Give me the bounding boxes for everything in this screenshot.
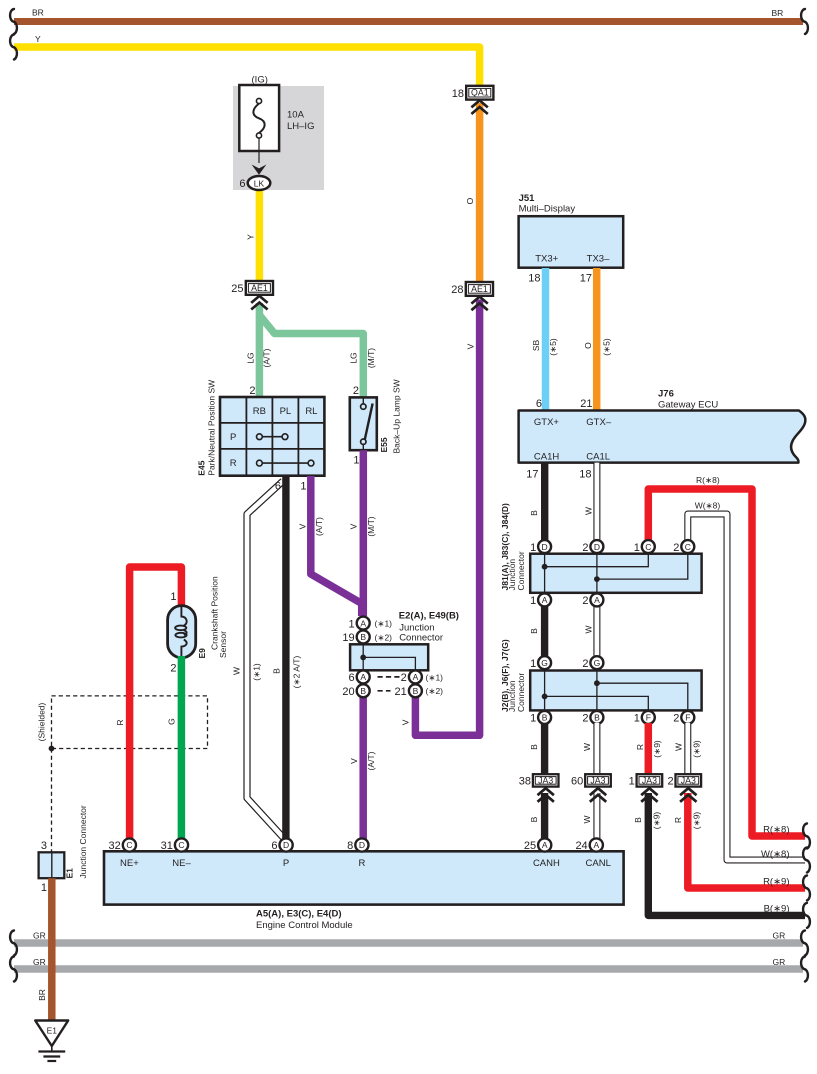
wire LG branch to E55 pin2 [259,315,363,398]
dashes row A [378,676,400,678]
chevron under AE1 28 [471,297,487,311]
svg-text:(IG): (IG) [252,75,268,86]
connector box 25 AE1 [231,281,273,295]
svg-text:V: V [466,343,476,349]
svg-text:1: 1 [634,542,640,554]
svg-text:W: W [583,625,593,633]
svg-text:17: 17 [580,273,592,285]
wire GR 2 [14,965,803,973]
svg-text:(∗1): (∗1) [251,663,261,681]
curl W(*8) right [803,848,810,873]
svg-text:25: 25 [524,840,536,852]
wire B 38 JA3 to CANH [541,793,548,840]
connector box 2 JA3 [667,774,701,787]
wire LG from AE1 to E45 pin2 [256,303,264,397]
svg-text:A: A [593,840,599,850]
wire V (M/T) E55 pin1 to E2 junction [360,450,368,616]
svg-text:(∗5): (∗5) [548,338,558,356]
ground E1 [35,1021,68,1062]
svg-text:LG: LG [349,352,359,363]
svg-text:(A/T): (A/T) [262,348,272,367]
svg-text:6: 6 [275,481,281,493]
wire BR top [14,18,803,25]
svg-text:8: 8 [347,840,353,852]
svg-text:(∗9): (∗9) [691,740,701,758]
svg-text:E2(A), E49(B): E2(A), E49(B) [399,611,459,622]
svg-text:D: D [594,542,600,552]
svg-text:W: W [582,815,592,823]
svg-text:P: P [283,858,289,869]
svg-text:(∗2): (∗2) [375,632,393,642]
pin 2 D [582,540,603,554]
svg-text:1: 1 [530,542,536,554]
svg-text:1: 1 [629,775,635,787]
svg-text:3: 3 [41,840,47,852]
pin 2 G [582,656,603,670]
ECU J76 Gateway ECU [519,389,806,463]
wire V E2 junction to ECM R [359,697,367,841]
svg-text:BR: BR [37,989,47,1001]
curl GR2 right [801,957,808,982]
svg-text:JA3: JA3 [642,775,657,785]
svg-text:(M/T): (M/T) [366,348,376,368]
svg-text:(∗1): (∗1) [375,619,393,629]
svg-text:P: P [230,432,236,443]
svg-text:Back–Up Lamp SW: Back–Up Lamp SW [391,379,401,453]
svg-text:A: A [360,672,366,682]
pin 32 C [109,838,136,852]
svg-text:R(∗9): R(∗9) [763,877,789,888]
wire B between junction boxes [541,552,548,663]
wire R box2 to 1 JA3 [645,723,653,775]
wire W box2 to 2 JA3 [684,723,691,775]
svg-text:(∗9): (∗9) [652,740,662,758]
wire V (A/T) E45 pin1 to E2 junction [311,476,362,616]
svg-text:G: G [166,718,176,725]
svg-text:2: 2 [249,385,255,397]
wire O QA1 to AE1 [476,103,484,282]
connector 6 LK [239,176,270,190]
svg-text:F: F [646,713,651,723]
curl B(*9) right [803,903,810,928]
curl GR1 right [801,931,808,956]
svg-text:W: W [231,667,241,675]
pin 1 D [530,540,551,554]
pin 19 B E2 [342,630,392,644]
svg-text:(∗5): (∗5) [602,338,612,356]
svg-text:PL: PL [280,406,292,417]
node shield drain [49,746,55,752]
svg-text:6: 6 [536,398,542,410]
svg-text:Y: Y [246,234,256,240]
wire W box2 to 60 JA3 [593,723,600,775]
wire V AE1 down to E2 junction pin 21 [415,300,479,736]
svg-text:2: 2 [582,713,588,725]
svg-text:Multi–Display: Multi–Display [519,204,576,215]
svg-text:2: 2 [582,542,588,554]
svg-text:LK: LK [254,178,265,188]
svg-text:B: B [594,713,600,723]
svg-text:2: 2 [170,663,176,675]
svg-text:R: R [358,858,365,869]
wire B CA1H down [541,463,548,541]
svg-text:AE1: AE1 [251,283,268,293]
svg-text:1: 1 [634,713,640,725]
connector box 60 JA3 [571,774,611,787]
svg-text:C: C [685,542,691,552]
svg-text:B: B [413,686,419,696]
svg-text:(∗9): (∗9) [651,812,661,830]
chevron arrow under AE1 25 [251,296,267,310]
svg-text:B: B [542,713,548,723]
pin 31 C [161,838,188,852]
svg-text:(∗2 A/T): (∗2 A/T) [291,656,301,689]
pin 6 D [271,838,292,852]
svg-text:W(∗8): W(∗8) [761,849,790,860]
wire shield drain dashed to E1 [51,749,53,853]
curl BR right [801,9,808,34]
svg-text:1: 1 [530,595,536,607]
svg-text:E1: E1 [65,868,75,879]
svg-text:E1: E1 [47,1026,58,1036]
svg-text:J76: J76 [658,389,674,400]
chevron under 1 JA3 [641,788,657,802]
pin 6 A E2 [348,670,369,684]
svg-text:CA1L: CA1L [586,452,610,463]
svg-text:(A/T): (A/T) [366,751,376,770]
svg-text:21: 21 [580,398,592,410]
svg-text:18: 18 [528,273,540,285]
chevron under 2 JA3 [680,788,696,802]
svg-text:B: B [529,744,539,750]
svg-text:O: O [583,342,593,349]
svg-text:2: 2 [401,672,407,684]
svg-text:W: W [582,743,592,751]
svg-text:R: R [673,817,683,823]
svg-text:21: 21 [395,686,407,698]
pin 8 D [347,838,368,852]
wire R E9 circuit [130,567,182,841]
ECU J51 Multi-Display [519,193,624,268]
svg-text:JA3: JA3 [590,775,605,785]
wire GR 1 [14,939,803,947]
svg-text:Junction Connector: Junction Connector [78,805,88,878]
pin 1 A [530,593,551,607]
curl GR1 left [10,931,17,956]
svg-text:A5(A), E3(C), E4(D): A5(A), E3(C), E4(D) [256,909,342,920]
svg-text:CANH: CANH [533,858,560,869]
svg-text:C: C [178,840,184,850]
svg-text:QA1: QA1 [471,88,489,98]
svg-text:2: 2 [353,385,359,397]
svg-text:A: A [360,618,366,628]
wire R(*8) [648,489,805,836]
svg-text:JA3: JA3 [681,775,696,785]
pin 2 A E2 [401,670,444,684]
svg-text:B: B [529,510,539,516]
wire G E9 to ECM [178,656,186,841]
fuse 10A LH-IG [239,75,314,175]
svg-text:A: A [413,672,419,682]
pin 1 F [634,711,655,725]
svg-text:A: A [542,595,548,605]
svg-text:CANL: CANL [586,858,611,869]
svg-text:CA1H: CA1H [534,452,559,463]
svg-text:W: W [583,507,593,515]
pin 21 B E2 [395,684,444,698]
wire B E45 pin6 to ECM P [282,476,289,841]
curl Y left [10,35,17,60]
pin 24 A [575,838,602,852]
curl GR2 left [10,957,17,982]
svg-text:B: B [360,686,366,696]
svg-text:D: D [359,840,365,850]
svg-text:GR: GR [773,957,786,967]
svg-text:GR: GR [33,957,46,967]
svg-text:2: 2 [582,658,588,670]
svg-text:D: D [283,840,289,850]
ECM A5(A) E3(C) E4(D) Engine Control Module [104,851,624,931]
junction connector E1 [39,805,88,894]
wire B box2 to 38 JA3 [541,723,548,775]
svg-text:LG: LG [245,352,255,363]
svg-text:AE1: AE1 [471,284,488,294]
svg-text:1: 1 [170,591,176,603]
svg-text:1: 1 [300,481,306,493]
svg-text:V: V [401,719,411,725]
chevron under QA1 [471,100,487,114]
svg-text:B: B [529,628,539,634]
svg-text:B: B [360,632,366,642]
fuse block background [233,86,324,190]
wire Y fuse to AE1 [256,188,264,282]
svg-text:F: F [685,713,690,723]
svg-text:C: C [126,840,132,850]
svg-text:C: C [645,542,651,552]
svg-text:28: 28 [451,284,463,296]
connector box 1 JA3 [629,774,663,787]
svg-text:TX3–: TX3– [587,254,610,265]
svg-text:BR: BR [32,8,44,18]
svg-text:1: 1 [530,658,536,670]
svg-text:Gateway ECU: Gateway ECU [658,400,718,411]
svg-text:19: 19 [342,632,354,644]
svg-text:B: B [633,817,643,823]
svg-text:18: 18 [579,469,591,481]
dashes row B [378,690,391,692]
svg-text:NE–: NE– [172,858,191,869]
svg-text:6: 6 [239,178,245,190]
svg-text:Park/Neutral Position SW: Park/Neutral Position SW [207,380,217,476]
svg-text:V: V [349,758,359,764]
svg-text:Y: Y [35,34,41,44]
svg-text:A: A [542,840,548,850]
svg-text:E9: E9 [197,648,207,659]
curl R(*9) right [803,876,810,901]
svg-text:1: 1 [353,455,359,467]
svg-text:R: R [230,458,237,469]
svg-text:(M/T): (M/T) [366,516,376,536]
svg-text:1: 1 [348,618,354,630]
svg-text:B: B [529,816,539,822]
svg-text:R: R [115,719,125,725]
svg-text:2: 2 [667,775,673,787]
svg-text:17: 17 [526,469,538,481]
svg-text:(∗9): (∗9) [691,812,701,830]
wire R(*9) 2 JA3 to right [688,793,805,888]
svg-text:38: 38 [519,775,531,787]
svg-text:G: G [594,658,601,668]
chevron under 60 JA3 [590,788,606,802]
wire Y top to QA1 [14,47,480,85]
svg-text:18: 18 [452,88,464,100]
wire SB J51 to J76 [542,268,550,411]
wire W shield (*1) E45 pin6 to ECM P [247,481,285,839]
junction connector J81(A) J83(C) J84(D) [500,503,702,593]
svg-text:60: 60 [571,775,583,787]
pin 2 B [582,711,603,725]
svg-text:E55: E55 [379,437,389,452]
pin 25 A [524,838,551,852]
svg-text:6: 6 [348,672,354,684]
sensor E9 Crankshaft Position Sensor [168,576,228,658]
connector box 38 JA3 [519,774,559,787]
svg-text:20: 20 [342,686,354,698]
svg-text:LH–IG: LH–IG [287,121,314,132]
svg-text:2: 2 [673,713,679,725]
svg-text:2: 2 [582,595,588,607]
svg-text:25: 25 [231,283,243,295]
svg-text:W(∗8): W(∗8) [695,501,721,511]
shielded cable dashed box [52,696,208,749]
wire O J51 to J76 [593,268,601,411]
svg-text:R(∗8): R(∗8) [763,825,789,836]
pin 2 A [582,593,603,607]
svg-text:24: 24 [575,840,587,852]
connector box 18 QA1 [452,86,494,100]
svg-text:1: 1 [41,882,47,894]
svg-text:R(∗8): R(∗8) [696,475,720,485]
svg-text:GTX–: GTX– [586,417,612,428]
pin 1 C [634,540,655,554]
svg-text:6: 6 [271,840,277,852]
switch E45 Park/Neutral Position SW [197,380,325,476]
wire B(*9) 1 JA3 to right [648,793,805,915]
svg-text:W: W [673,743,683,751]
chevron under 38 JA3 [538,788,554,802]
svg-text:RL: RL [305,406,317,417]
svg-text:BR: BR [772,8,784,18]
pin 2 C [673,540,694,554]
junction connector J2(B) J6(F) J7(G) [500,639,702,712]
curl R(*8) right [803,824,810,849]
svg-text:1: 1 [530,713,536,725]
svg-text:NE+: NE+ [120,858,139,869]
pin 20 B E2 [342,684,369,698]
svg-text:R: R [635,744,645,750]
svg-text:(∗1): (∗1) [426,672,444,682]
svg-text:31: 31 [161,840,173,852]
curl BR left [10,9,17,34]
svg-text:GR: GR [33,931,46,941]
svg-text:V: V [298,523,308,529]
svg-text:RB: RB [253,406,266,417]
svg-text:J51: J51 [519,193,536,204]
svg-text:E45: E45 [197,460,207,475]
svg-text:Sensor: Sensor [218,631,228,658]
svg-text:G: G [541,658,548,668]
svg-text:O: O [465,197,475,204]
wire W 60 JA3 to CANL [593,793,600,840]
wire BR E1 to ground [48,878,56,1021]
wire W CA1L down [593,463,600,541]
svg-text:(Shielded): (Shielded) [37,702,47,741]
wire W(*8) [688,514,805,860]
svg-text:10A: 10A [287,110,305,121]
svg-text:SB: SB [531,340,541,352]
svg-text:B: B [272,668,282,674]
svg-text:Connector: Connector [399,633,443,644]
junction connector E2(A) E49(B) [350,611,459,671]
svg-text:Engine Control Module: Engine Control Module [256,920,353,931]
svg-text:Connector: Connector [516,551,526,590]
svg-text:GR: GR [773,931,786,941]
svg-text:GTX+: GTX+ [534,417,560,428]
svg-text:A: A [594,595,600,605]
svg-text:32: 32 [109,840,121,852]
wire W between junction boxes [593,552,600,663]
svg-text:Connector: Connector [516,673,526,712]
svg-text:2: 2 [673,542,679,554]
svg-text:JA3: JA3 [538,775,553,785]
connector box 28 AE1 [451,282,493,296]
switch E55 Back-Up Lamp SW [350,379,402,466]
pin 1 G [530,656,551,670]
pin 2 F [673,711,694,725]
svg-text:(A/T): (A/T) [314,517,324,536]
svg-text:(∗2): (∗2) [426,686,444,696]
svg-text:B(∗9): B(∗9) [764,904,790,915]
pin 1 B [530,711,551,725]
pin 1 A E2 [348,617,392,631]
svg-text:V: V [349,523,359,529]
svg-text:D: D [542,542,548,552]
svg-text:TX3+: TX3+ [535,254,558,265]
